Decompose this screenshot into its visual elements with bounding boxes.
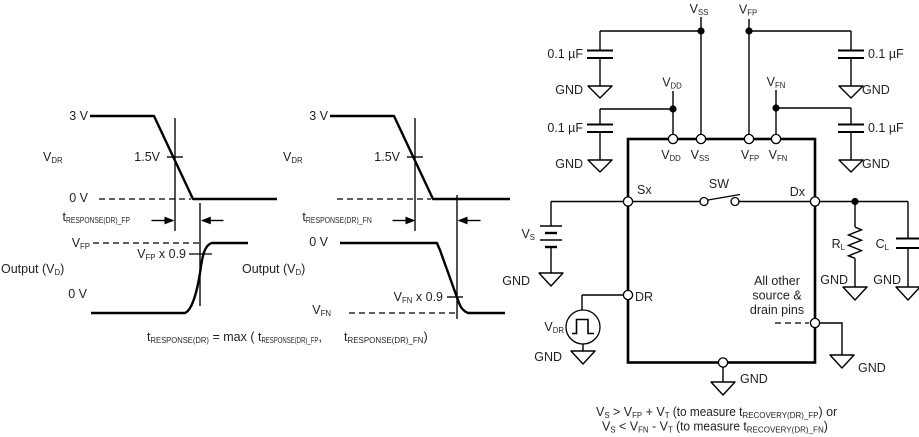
ground bottom	[711, 382, 735, 395]
wire CL bottom	[907, 248, 909, 287]
wire VFP to cap3	[749, 30, 851, 32]
wire VDR vertical	[581, 295, 583, 310]
capacitor CL plates	[896, 239, 919, 249]
svg-text:GND: GND	[820, 273, 848, 287]
dashed 0V level (diagram FP)	[99, 198, 191, 200]
pin Dx	[810, 197, 819, 206]
ground other pins	[830, 355, 854, 368]
waveform VDR falling edge (diagram FP)	[90, 116, 277, 199]
junction VSS	[697, 27, 704, 34]
svg-text:0.1 µF: 0.1 µF	[547, 121, 583, 135]
svg-text:3 V: 3 V	[69, 109, 88, 123]
capacitor C1 wire bottom	[599, 58, 601, 86]
pin VFP	[744, 134, 753, 143]
wire VFP vertical	[748, 19, 750, 139]
output waveform rising to VFP (diagram FP)	[91, 243, 248, 313]
ground VDR	[571, 351, 595, 364]
ground C2	[588, 160, 612, 172]
arrow left tRESPONSE (diagram FN)	[393, 217, 416, 225]
svg-text:VFP x 0.9: VFP x 0.9	[137, 247, 186, 262]
wire VS vertical top	[550, 202, 552, 227]
wire Sx to VS	[551, 201, 628, 203]
wire RL top	[854, 202, 856, 228]
wire VDD vertical	[672, 91, 674, 139]
svg-text:0.1 µF: 0.1 µF	[547, 47, 583, 61]
capacitor C3 plates	[838, 51, 864, 59]
svg-text:All other: All other	[754, 274, 800, 288]
vertical cursor at 90% output (diagram FP)	[199, 203, 201, 306]
svg-text:drain pins: drain pins	[750, 303, 804, 317]
pulse source VDR	[566, 310, 600, 344]
svg-text:GND: GND	[740, 372, 768, 386]
capacitor C2 0.1uF wire top	[599, 109, 601, 124]
battery VS	[540, 226, 562, 247]
wire RL bottom	[854, 258, 856, 287]
wire VDD to cap2	[600, 108, 673, 110]
svg-text:3 V: 3 V	[309, 109, 328, 123]
wire other pins to ground	[820, 323, 842, 355]
capacitor C4 plates	[838, 125, 864, 133]
pin VSS	[696, 134, 705, 143]
junction VFP	[745, 27, 752, 34]
svg-text:GND: GND	[502, 274, 530, 288]
wire GND bottom	[722, 368, 724, 383]
dashed wire other pins	[775, 322, 809, 324]
wire VSS vertical	[700, 17, 702, 139]
capacitor C2 wire bottom	[599, 132, 601, 160]
svg-text:0 V: 0 V	[309, 235, 328, 249]
wire VDR to ground	[582, 344, 584, 351]
waveform VDR falling edge (diagram FN)	[330, 116, 510, 199]
wire VFN to cap4	[776, 107, 851, 109]
pin VDD	[668, 134, 677, 143]
switch SW	[700, 195, 740, 206]
arrow left tRESPONSE (diagram FP)	[152, 217, 175, 225]
svg-text:Dx: Dx	[790, 185, 806, 199]
junction VFN	[772, 104, 779, 111]
junction Dx loads	[851, 198, 858, 205]
pin other source drain	[810, 318, 819, 327]
junction VDD	[669, 105, 676, 112]
svg-text:GND: GND	[555, 157, 583, 171]
svg-text:DR: DR	[635, 290, 653, 304]
svg-text:GND: GND	[873, 273, 901, 287]
wire VFN vertical	[775, 90, 777, 139]
arrow right tRESPONSE (diagram FP)	[201, 217, 224, 225]
vertical cursor at 1.5V crossing (diagram FN)	[414, 118, 416, 231]
svg-text:1.5V: 1.5V	[374, 150, 400, 164]
capacitor C3 wire bottom	[850, 58, 852, 86]
svg-text:1.5V: 1.5V	[134, 150, 160, 164]
dashed 0V level (diagram FN)	[337, 198, 431, 200]
capacitor C1 0.1uF wire top	[599, 31, 601, 50]
capacitor C4 0.1uF wire top	[850, 108, 852, 124]
wire CL top	[907, 202, 909, 240]
tick VFP x 0.9 (diagram FP)	[189, 253, 212, 255]
wire VS to ground	[550, 247, 552, 273]
svg-text:GND: GND	[555, 83, 583, 97]
wire switch to Dx	[739, 201, 815, 203]
ground VS	[539, 273, 563, 286]
wire Sx to switch	[633, 201, 700, 203]
pin DR	[623, 290, 632, 299]
svg-text:0 V: 0 V	[68, 287, 87, 301]
capacitor C3 0.1uF wire top	[850, 31, 852, 50]
tick 1.5V (diagram FN)	[407, 156, 423, 158]
capacitor C1 plates	[587, 51, 613, 59]
ground C3	[839, 86, 863, 98]
resistor RL	[849, 227, 862, 258]
svg-text:SW: SW	[709, 177, 729, 191]
tick 1.5V (diagram FP)	[167, 156, 183, 158]
ground C4	[839, 160, 863, 172]
svg-text:source &: source &	[752, 289, 802, 303]
wire VSS to cap1	[600, 30, 701, 32]
svg-text:GND: GND	[534, 350, 562, 364]
vertical cursor at 90% output (diagram FN)	[456, 195, 458, 319]
label all other source and drain pins	[750, 274, 804, 317]
svg-text:0 V: 0 V	[69, 191, 88, 205]
DUT box	[628, 139, 815, 363]
svg-text:VFN x 0.9: VFN x 0.9	[394, 290, 443, 305]
ground C1	[588, 86, 612, 98]
capacitor C2 plates	[587, 125, 613, 133]
ground CL	[896, 287, 919, 300]
pin VFN	[771, 134, 780, 143]
output waveform falling to VFN (diagram FN)	[340, 243, 505, 313]
svg-text:GND: GND	[862, 83, 890, 97]
svg-text:Sx: Sx	[637, 183, 652, 197]
wire DR to VDR	[582, 294, 628, 296]
arrow right tRESPONSE (diagram FN)	[458, 217, 481, 225]
pin Sx	[623, 197, 632, 206]
svg-text:0.1 µF: 0.1 µF	[868, 47, 904, 61]
dashed VFP level (diagram FP)	[93, 242, 199, 244]
dashed VFN level (diagram FN)	[349, 312, 456, 314]
ground RL	[843, 287, 867, 300]
vertical cursor at 1.5V crossing (diagram FP)	[174, 118, 176, 231]
pin GND bottom	[718, 358, 727, 367]
tick VFN x 0.9 (diagram FN)	[447, 296, 463, 298]
svg-text:GND: GND	[858, 361, 886, 375]
svg-text:GND: GND	[862, 157, 890, 171]
svg-text:0.1 µF: 0.1 µF	[868, 121, 904, 135]
wire Dx to loads	[820, 201, 908, 203]
capacitor C4 wire bottom	[850, 132, 852, 160]
